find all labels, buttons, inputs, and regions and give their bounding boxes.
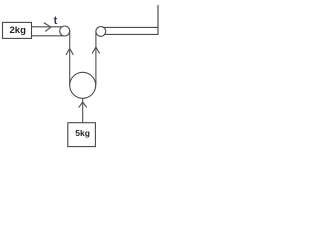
wire: left vertical rope (69, 31, 71, 85)
tension arrow on horizontal rope (44, 23, 51, 32)
wire: rope from 2kg block, bottom segment (32, 35, 65, 37)
wire: rope to wall, bottom segment (104, 33, 158, 35)
svg-text:t: t (54, 15, 58, 27)
wire: rope from 2kg block, top segment (32, 26, 63, 28)
tension arrow on lower rope (79, 102, 87, 108)
wire: rope to wall, top segment (103, 26, 159, 28)
tension arrow on left rope (66, 49, 73, 56)
wire: right vertical rope (95, 31, 97, 85)
mass block 5kg (68, 123, 96, 147)
tension arrow on right rope (92, 47, 99, 54)
mass block 2kg (3, 22, 32, 38)
pulley P2 (upper right) (96, 27, 106, 37)
svg-text:5kg: 5kg (75, 128, 90, 138)
pulley P1 (upper left) (60, 26, 70, 36)
pulley P3 (large lower) (70, 72, 96, 98)
wall support (157, 5, 159, 35)
svg-text:2kg: 2kg (10, 25, 27, 36)
wire: rope to 5kg block (82, 98, 84, 122)
